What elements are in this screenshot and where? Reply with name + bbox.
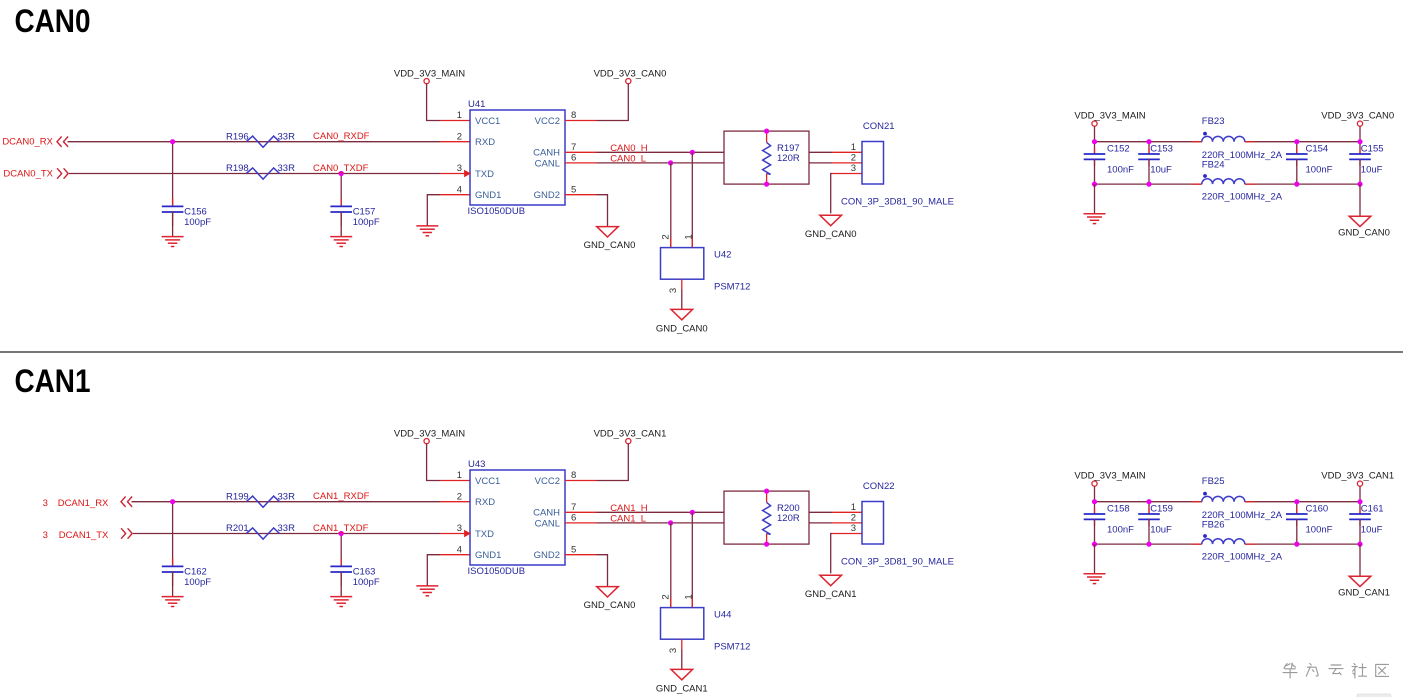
svg-text:PSM712: PSM712 (714, 642, 750, 653)
svg-text:1: 1 (457, 110, 462, 121)
svg-text:3: 3 (668, 648, 679, 653)
svg-text:7: 7 (571, 502, 576, 513)
svg-text:GND_CAN1: GND_CAN1 (1338, 587, 1390, 598)
svg-text:2: 2 (660, 234, 671, 239)
svg-text:CANH: CANH (533, 148, 560, 159)
svg-text:CON_3P_3D81_90_MALE: CON_3P_3D81_90_MALE (841, 557, 954, 568)
svg-text:U42: U42 (714, 250, 731, 261)
svg-text:DCAN0_TX: DCAN0_TX (3, 169, 53, 180)
svg-text:GND_CAN1: GND_CAN1 (805, 589, 857, 600)
svg-text:8: 8 (571, 470, 576, 481)
svg-text:100nF: 100nF (1306, 165, 1333, 176)
svg-text:6: 6 (571, 513, 576, 524)
svg-text:3: 3 (43, 530, 48, 541)
svg-text:C158: C158 (1107, 503, 1130, 514)
svg-text:VCC1: VCC1 (475, 476, 500, 487)
svg-text:C157: C157 (353, 207, 376, 218)
svg-text:DCAN1_RX: DCAN1_RX (58, 498, 109, 509)
svg-text:C162: C162 (184, 567, 207, 578)
svg-text:FB26: FB26 (1202, 519, 1225, 530)
svg-text:1: 1 (457, 470, 462, 481)
svg-text:3: 3 (43, 498, 48, 509)
svg-text:U43: U43 (468, 459, 485, 470)
svg-text:CANL: CANL (535, 158, 560, 169)
svg-text:100pF: 100pF (353, 217, 380, 228)
svg-text:GND_CAN1: GND_CAN1 (656, 683, 708, 694)
svg-text:R201: R201 (226, 523, 249, 534)
svg-text:10uF: 10uF (1361, 525, 1383, 536)
svg-text:100pF: 100pF (184, 577, 211, 588)
svg-text:GND_CAN0: GND_CAN0 (584, 240, 636, 251)
svg-text:CAN1_H: CAN1_H (610, 503, 648, 514)
svg-text:2: 2 (457, 131, 462, 142)
svg-text:120R: 120R (777, 153, 800, 164)
svg-text:5: 5 (571, 184, 576, 195)
svg-text:5: 5 (571, 544, 576, 555)
svg-text:C154: C154 (1306, 143, 1329, 154)
svg-text:GND_CAN0: GND_CAN0 (805, 229, 857, 240)
svg-text:CON21: CON21 (863, 121, 895, 132)
svg-text:VCC1: VCC1 (475, 116, 500, 127)
svg-text:VDD_3V3_MAIN: VDD_3V3_MAIN (1074, 110, 1145, 121)
svg-text:VCC2: VCC2 (535, 476, 560, 487)
svg-text:100nF: 100nF (1306, 525, 1333, 536)
svg-text:TXD: TXD (475, 529, 494, 540)
svg-text:VDD_3V3_CAN0: VDD_3V3_CAN0 (1321, 110, 1394, 121)
svg-text:CAN1: CAN1 (15, 363, 91, 399)
svg-text:CAN1_L: CAN1_L (610, 513, 646, 524)
svg-text:FB23: FB23 (1202, 116, 1225, 127)
svg-text:CON22: CON22 (863, 481, 895, 492)
svg-text:R198: R198 (226, 163, 249, 174)
svg-text:VDD_3V3_MAIN: VDD_3V3_MAIN (1074, 470, 1145, 481)
svg-text:120R: 120R (777, 513, 800, 524)
svg-text:TXD: TXD (475, 169, 494, 180)
svg-text:3: 3 (851, 163, 856, 174)
svg-text:VDD_3V3_MAIN: VDD_3V3_MAIN (394, 68, 465, 79)
svg-text:2: 2 (660, 594, 671, 599)
svg-text:CAN1_TXDF: CAN1_TXDF (313, 523, 369, 534)
svg-text:GND_CAN0: GND_CAN0 (656, 323, 708, 334)
svg-text:C153: C153 (1150, 143, 1173, 154)
svg-text:CAN0: CAN0 (15, 3, 91, 39)
svg-text:VDD_3V3_CAN1: VDD_3V3_CAN1 (594, 428, 667, 439)
svg-text:U44: U44 (714, 610, 731, 621)
svg-text:2: 2 (457, 491, 462, 502)
svg-text:VCC2: VCC2 (535, 116, 560, 127)
svg-text:100pF: 100pF (184, 217, 211, 228)
svg-text:33R: 33R (278, 131, 296, 142)
svg-text:GND2: GND2 (534, 550, 560, 561)
svg-text:CANL: CANL (535, 518, 560, 529)
svg-text:1: 1 (683, 594, 694, 599)
svg-text:GND_CAN0: GND_CAN0 (584, 600, 636, 611)
svg-text:R199: R199 (226, 491, 249, 502)
svg-text:100pF: 100pF (353, 577, 380, 588)
svg-text:33R: 33R (278, 163, 296, 174)
svg-text:DCAN0_RX: DCAN0_RX (2, 137, 53, 148)
svg-text:ISO1050DUB: ISO1050DUB (468, 206, 526, 217)
svg-text:3: 3 (851, 523, 856, 534)
svg-text:4: 4 (457, 184, 462, 195)
svg-text:C155: C155 (1361, 143, 1384, 154)
svg-text:1: 1 (683, 234, 694, 239)
svg-text:100nF: 100nF (1107, 165, 1134, 176)
svg-text:C161: C161 (1361, 503, 1384, 514)
svg-text:RXD: RXD (475, 497, 495, 508)
svg-text:PSM712: PSM712 (714, 282, 750, 293)
svg-text:3: 3 (668, 288, 679, 293)
svg-text:33R: 33R (278, 523, 296, 534)
svg-text:CAN0_L: CAN0_L (610, 153, 646, 164)
svg-text:4: 4 (457, 544, 462, 555)
svg-text:CON_3P_3D81_90_MALE: CON_3P_3D81_90_MALE (841, 197, 954, 208)
svg-text:6: 6 (571, 153, 576, 164)
svg-text:U41: U41 (468, 99, 485, 110)
svg-text:8: 8 (571, 110, 576, 121)
svg-text:DCAN1_TX: DCAN1_TX (59, 530, 109, 541)
svg-text:CAN0_H: CAN0_H (610, 143, 648, 154)
svg-text:VDD_3V3_CAN1: VDD_3V3_CAN1 (1321, 470, 1394, 481)
svg-text:C163: C163 (353, 567, 376, 578)
svg-text:3: 3 (457, 523, 462, 534)
svg-text:CAN1_RXDF: CAN1_RXDF (313, 491, 370, 502)
svg-text:7: 7 (571, 142, 576, 153)
svg-text:3: 3 (457, 163, 462, 174)
svg-text:C160: C160 (1306, 503, 1329, 514)
svg-text:2: 2 (851, 513, 856, 524)
svg-text:10uF: 10uF (1150, 525, 1172, 536)
svg-text:C159: C159 (1150, 503, 1173, 514)
svg-text:2: 2 (851, 153, 856, 164)
svg-text:220R_100MHz_2A: 220R_100MHz_2A (1202, 552, 1283, 563)
svg-text:GND1: GND1 (475, 190, 501, 201)
svg-text:FB24: FB24 (1202, 159, 1225, 170)
svg-text:10uF: 10uF (1150, 165, 1172, 176)
svg-text:10uF: 10uF (1361, 165, 1383, 176)
svg-text:GND2: GND2 (534, 190, 560, 201)
svg-text:CANH: CANH (533, 508, 560, 519)
svg-text:GND1: GND1 (475, 550, 501, 561)
svg-text:R196: R196 (226, 131, 249, 142)
svg-text:FB25: FB25 (1202, 476, 1225, 487)
svg-text:VDD_3V3_CAN0: VDD_3V3_CAN0 (594, 68, 667, 79)
svg-text:100nF: 100nF (1107, 525, 1134, 536)
svg-text:CAN0_TXDF: CAN0_TXDF (313, 163, 369, 174)
svg-text:220R_100MHz_2A: 220R_100MHz_2A (1202, 192, 1283, 203)
svg-text:1: 1 (851, 142, 856, 153)
svg-text:CAN0_RXDF: CAN0_RXDF (313, 131, 370, 142)
svg-text:VDD_3V3_MAIN: VDD_3V3_MAIN (394, 428, 465, 439)
svg-text:GND_CAN0: GND_CAN0 (1338, 227, 1390, 238)
svg-text:33R: 33R (278, 491, 296, 502)
svg-text:ISO1050DUB: ISO1050DUB (468, 566, 526, 577)
svg-text:C152: C152 (1107, 143, 1130, 154)
svg-text:RXD: RXD (475, 137, 495, 148)
svg-text:C156: C156 (184, 207, 207, 218)
svg-text:1: 1 (851, 502, 856, 513)
